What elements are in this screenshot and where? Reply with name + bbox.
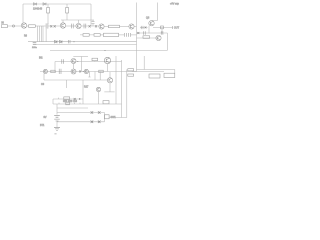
diode D2	[43, 3, 46, 6]
transistor Q9 big	[104, 57, 110, 63]
wire row2 comp row b	[100, 34, 103, 36]
wire chain3	[53, 98, 83, 100]
wire mid chain1	[55, 61, 122, 63]
diode D10	[137, 32, 139, 34]
resistor R14	[103, 101, 109, 104]
resistor R4	[29, 25, 36, 28]
diode D8	[55, 40, 58, 43]
resistor R3	[66, 8, 69, 14]
wire bottom rail1	[53, 103, 122, 105]
wire bottom rail3	[57, 112, 105, 114]
wire drop x95	[94, 72, 96, 81]
capacitor C7	[125, 33, 127, 37]
wire bottom rail1 ticks	[59, 103, 80, 104]
transistor Q13	[96, 87, 100, 91]
battery BT1	[54, 115, 60, 121]
diode D13	[91, 111, 94, 114]
capacitor C12	[59, 69, 61, 74]
svg-text:BT1: BT1	[40, 124, 45, 127]
resistor R13	[64, 97, 70, 100]
wire C1 drop	[45, 29, 47, 42]
wire Q8 to Q11	[73, 64, 75, 70]
svg-text:Q6: Q6	[146, 17, 150, 20]
diode D6	[95, 25, 97, 27]
svg-text:IN2: IN2	[39, 58, 43, 60]
wire chain f	[120, 26, 129, 28]
svg-text:C9: C9	[41, 83, 45, 86]
resistor R6	[83, 34, 89, 37]
wire row2 right line	[137, 33, 168, 38]
resistor R15	[128, 69, 134, 71]
capacitor C10	[161, 31, 163, 35]
svg-text:R6: R6	[24, 35, 28, 37]
wire R10 stub	[94, 60, 96, 63]
diode D7	[145, 26, 147, 28]
diode D9	[60, 40, 63, 43]
wire row2 comp row d	[131, 34, 137, 36]
wire emitter row	[104, 91, 114, 93]
capacitor C5	[141, 26, 143, 29]
transistor Q11	[71, 69, 76, 74]
transistor Q14	[84, 69, 88, 73]
connector right box A	[149, 74, 160, 78]
diode D5	[89, 25, 91, 27]
capacitor C11	[62, 59, 64, 64]
wire mid top stub	[73, 56, 88, 58]
node input jack	[12, 25, 14, 27]
svg-text:...: ...	[55, 132, 57, 135]
resistor R7	[94, 34, 100, 37]
svg-text:OUT: OUT	[174, 27, 180, 30]
wire switch out	[109, 117, 127, 119]
wire right col drop	[166, 33, 168, 50]
transistor Q6	[149, 21, 154, 26]
transistor Q4	[99, 24, 104, 29]
wire row2 comp row c	[119, 34, 125, 36]
resistor R2	[47, 8, 50, 14]
transistor Q1	[21, 23, 26, 28]
resistor R5	[109, 25, 120, 28]
wire vert right b	[121, 60, 123, 118]
node return dot	[104, 50, 105, 51]
capacitor C8	[129, 33, 131, 37]
wire right pair top	[137, 69, 175, 71]
resistor R8	[104, 33, 119, 36]
wire battery vertical	[56, 104, 58, 115]
wire vert right a	[115, 56, 117, 104]
resistor R9	[143, 36, 150, 39]
capacitor C2	[71, 24, 73, 29]
transistor Q8	[71, 59, 76, 64]
transistor Q12	[107, 78, 112, 83]
capacitor C4	[92, 22, 95, 24]
wire chain g	[134, 26, 136, 28]
wire mid chain2	[40, 71, 137, 73]
label output	[172, 26, 174, 29]
wire rails join	[104, 113, 106, 122]
diode D16	[98, 121, 101, 124]
diode D1	[34, 3, 37, 6]
wire rail end drop	[90, 4, 92, 26]
resistor R20	[66, 102, 70, 105]
diode D14	[98, 111, 101, 114]
capacitor C1	[46, 23, 48, 28]
wire Q13 drop	[98, 92, 100, 104]
capacitor C6	[68, 40, 70, 43]
wire mid low tick	[65, 80, 67, 88]
resistor R10	[92, 58, 98, 61]
ground	[54, 127, 60, 130]
svg-text:+9V sup: +9V sup	[170, 3, 180, 6]
transistor Q10	[43, 69, 47, 73]
wire Q12 emitter	[109, 83, 111, 92]
wire rail drop mid	[47, 4, 49, 24]
wire top rail	[23, 3, 91, 5]
capacitor C9	[144, 31, 146, 35]
resistor R16	[128, 74, 134, 76]
wire chain3 tick	[58, 98, 60, 99]
wire drops to vr chain	[38, 26, 43, 42]
wire bottom rail2	[57, 107, 88, 109]
wire out vertical	[161, 29, 163, 34]
wire supply vertical right	[152, 3, 158, 21]
resistor R11	[51, 70, 55, 73]
wire chain b	[48, 25, 60, 27]
wire mid long low	[44, 79, 107, 81]
svg-text:9V: 9V	[44, 116, 47, 119]
svg-text:R21 R22 C14: R21 R22 C14	[63, 101, 78, 103]
svg-text:1N4148: 1N4148	[33, 7, 43, 11]
node chain3 dot	[79, 98, 80, 99]
wire row2 lineA	[28, 41, 137, 43]
wire chain c	[66, 25, 76, 27]
wire row2 comp row a	[80, 34, 94, 36]
wire battery to ground	[56, 121, 58, 127]
wire right pair drop	[174, 70, 176, 74]
wire chain d	[81, 25, 99, 27]
resistor R12	[99, 70, 103, 73]
node mid2 dot	[83, 71, 84, 72]
wire bottom rail4	[57, 121, 105, 123]
wire right long vertical	[136, 3, 138, 72]
wire rail drop R3	[66, 4, 68, 20]
wire input	[8, 25, 22, 27]
wire rail drop left	[22, 4, 24, 23]
wire out stage left	[140, 27, 148, 29]
capacitor C13	[33, 43, 37, 44]
wire mid junction vertical	[80, 57, 82, 72]
node out junction	[161, 26, 164, 29]
wire Q12 collector	[109, 72, 111, 78]
wire vert right c	[126, 70, 128, 118]
diode D3	[50, 25, 52, 27]
wire chain e	[104, 26, 108, 28]
transistor Q3	[76, 23, 81, 28]
wire Q6 emitter drop	[148, 26, 150, 34]
diode D11	[79, 70, 81, 72]
svg-text:100n: 100n	[32, 47, 38, 49]
wire sub rail	[61, 19, 94, 21]
connector right box B	[164, 73, 175, 77]
wire chain3 up	[82, 80, 84, 104]
transistor Q5	[129, 24, 134, 29]
wire mid chain1 corner	[54, 62, 56, 72]
wire Q9 drop	[107, 64, 109, 72]
wire mid low drop left	[43, 74, 45, 81]
node row2 dot	[73, 41, 74, 42]
wire row2 lineB	[33, 44, 137, 46]
wire Q1 out	[27, 25, 29, 27]
diode D12	[74, 98, 76, 100]
wire chain3 down	[52, 99, 54, 104]
diode D15	[91, 121, 94, 124]
wire drop x100	[99, 72, 101, 81]
wire mid vert x144	[143, 56, 145, 70]
wire right pair bottom	[132, 71, 164, 73]
capacitor C3	[84, 24, 86, 29]
wire Q14 drop	[88, 72, 90, 78]
wire row2 return	[50, 49, 167, 51]
wire out stage right	[153, 27, 173, 29]
transistor Q2	[60, 23, 65, 28]
wire chain a	[35, 25, 45, 27]
transistor Q7	[156, 35, 161, 40]
diode D4	[54, 25, 56, 27]
node mid junction	[77, 61, 78, 62]
connector input J1	[2, 25, 8, 28]
svg-text:IN: IN	[1, 21, 4, 24]
wire sub drops	[63, 20, 93, 26]
switch SW1 box	[105, 115, 110, 119]
svg-text:R17: R17	[84, 86, 89, 89]
